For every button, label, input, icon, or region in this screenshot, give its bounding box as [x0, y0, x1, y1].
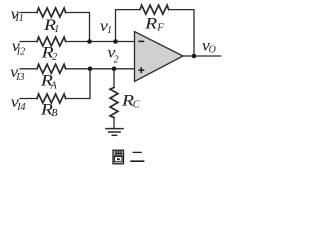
svg-text:I3: I3 [15, 72, 24, 83]
wire node v1 to op-amp inverting input [66, 41, 135, 43]
resistor RA [37, 64, 66, 73]
svg-text:I2: I2 [16, 46, 25, 57]
label RC [121, 93, 140, 111]
label RB [40, 101, 58, 119]
svg-text:1: 1 [107, 25, 112, 36]
label node v1 [100, 18, 112, 36]
label node v2 [107, 45, 118, 66]
wire RB up to node v2 [66, 69, 90, 99]
wire op-amp output to vO [183, 55, 221, 57]
label R1 [43, 17, 59, 35]
wire vI2 lead [20, 41, 37, 43]
svg-text:I4: I4 [16, 102, 25, 113]
svg-text:I1: I1 [14, 13, 23, 24]
label vI4 [11, 94, 26, 113]
svg-text:2: 2 [52, 52, 57, 63]
op-amp U1 [135, 32, 184, 82]
resistor RC [110, 88, 118, 118]
svg-text:R: R [144, 15, 158, 32]
label vI3 [10, 64, 24, 83]
resistor RF [140, 5, 169, 14]
label R2 [40, 45, 57, 63]
wire feedback left vertical to node v1 [116, 10, 141, 42]
ground [105, 129, 124, 136]
caption figure 2 glyph 圖 [113, 150, 124, 164]
wire RC to ground [113, 118, 115, 129]
wire vI1 lead [20, 12, 37, 14]
wire node v2 down to RC [113, 69, 115, 88]
svg-text:B: B [51, 108, 57, 119]
op-amp plus pin sign [138, 69, 144, 71]
svg-text:C: C [133, 100, 140, 111]
wire vI4 lead [20, 98, 37, 100]
label vI2 [12, 38, 25, 57]
wire vI3 lead [20, 68, 37, 70]
op-amp minus pin sign [138, 40, 144, 42]
svg-text:O: O [209, 44, 216, 55]
label vI1 [11, 6, 24, 24]
label output vO [202, 38, 216, 56]
label RA [40, 73, 58, 92]
resistor RB [37, 94, 66, 103]
node junction at RA/RB join [88, 67, 93, 72]
node v1 junction (feedback tap) [113, 39, 118, 44]
resistor R1 [37, 8, 66, 17]
wire R1 to corner [66, 13, 90, 42]
svg-text:F: F [156, 22, 165, 33]
node vO junction [192, 54, 197, 59]
wire node v2 to op-amp noninverting input [66, 68, 135, 70]
svg-text:A: A [50, 80, 58, 91]
svg-text:1: 1 [54, 24, 59, 35]
wire RF right down to output node [169, 10, 194, 56]
node junction at R1/R2 join [87, 39, 92, 44]
svg-text:2: 2 [114, 54, 119, 65]
caption figure 2 glyph 二 [130, 152, 144, 161]
resistor R2 [37, 37, 66, 46]
node v2 junction (RC tap) [112, 67, 117, 72]
label RF [144, 15, 165, 33]
